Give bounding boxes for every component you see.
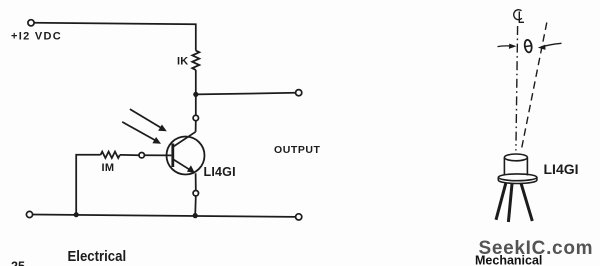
svg-text:+I2 VDC: +I2 VDC (11, 31, 62, 43)
wire pin to base bar (144, 154, 171, 156)
centerline dash-dot (516, 26, 518, 151)
svg-text:LI4GI: LI4GI (204, 165, 236, 179)
junction node emitter/rail (193, 213, 198, 218)
transistor Q1 body circle (167, 137, 205, 175)
terminal output bottom (296, 214, 302, 220)
transistor flange (498, 174, 537, 181)
dimension arrow right (542, 43, 562, 47)
wire emitter lower (194, 196, 197, 216)
wire collector to pin (195, 94, 197, 115)
transistor can top ellipse (504, 154, 527, 161)
wire resistor to base pin (120, 154, 139, 156)
light arrow 2 (122, 122, 156, 141)
svg-text:Electrical: Electrical (68, 247, 127, 264)
resistor R1 1K (192, 51, 199, 70)
wire collector upper (195, 70, 197, 95)
pin emitter (193, 191, 198, 196)
wire top supply (34, 23, 196, 51)
svg-text:Mechanical: Mechanical (475, 254, 542, 266)
leg middle (508, 184, 512, 222)
terminal bottom left (26, 211, 32, 217)
wire emitter upper (195, 173, 197, 190)
junction node collector/output (193, 92, 198, 97)
svg-text:IK: IK (177, 56, 188, 68)
transistor Q1 collector stroke (174, 132, 196, 147)
wire to output top (196, 93, 296, 95)
transistor Q1 base bar (171, 144, 174, 168)
transistor Q1 emitter stroke with arrow (174, 160, 192, 171)
svg-text:25: 25 (11, 259, 25, 266)
label theta (524, 39, 533, 53)
dashed angle line theta (521, 23, 547, 151)
centerline symbol CL (514, 10, 522, 20)
light arrow 1 (130, 109, 162, 128)
junction node rail/base-branch (74, 212, 79, 217)
svg-text:LI4GI: LI4GI (544, 161, 579, 177)
wire base left + down (76, 155, 100, 215)
transistor can body sides (503, 158, 505, 176)
leg left (496, 183, 506, 220)
svg-text:IM: IM (102, 162, 115, 174)
pin collector (193, 115, 198, 120)
terminal +12VDC (28, 20, 34, 26)
resistor R2 1M (101, 152, 120, 158)
dimension arrow left (498, 45, 513, 48)
leg right (521, 183, 532, 221)
pin base (139, 153, 144, 158)
terminal output top (296, 90, 302, 96)
svg-text:OUTPUT: OUTPUT (274, 144, 320, 156)
wire bottom rail (33, 215, 296, 217)
wire collector lower (195, 121, 197, 132)
